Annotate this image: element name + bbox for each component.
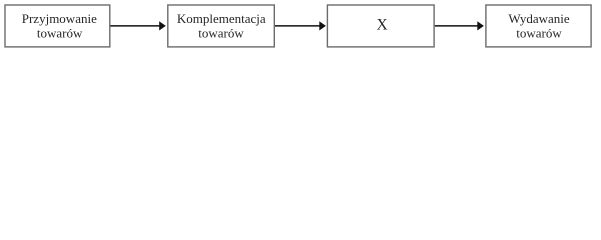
svg-text:towarów: towarów bbox=[37, 25, 83, 40]
block box: X bbox=[327, 5, 434, 47]
arrow 3: X -> Wydawanie bbox=[435, 21, 484, 30]
block box: Przyjmowanie towarow bbox=[5, 5, 110, 47]
svg-text:Wydawanie: Wydawanie bbox=[508, 11, 570, 26]
block box: Komplementacja towarow bbox=[168, 5, 274, 47]
svg-text:X: X bbox=[376, 16, 387, 33]
block box: Wydawanie towarow bbox=[486, 5, 591, 47]
svg-text:Komplementacja: Komplementacja bbox=[177, 11, 266, 26]
arrow 1: Przyjmowanie -> Komplementacja bbox=[111, 21, 166, 30]
svg-text:towarów: towarów bbox=[198, 25, 244, 40]
svg-text:Przyjmowanie: Przyjmowanie bbox=[22, 11, 97, 26]
svg-text:towarów: towarów bbox=[516, 25, 562, 40]
arrow 2: Komplementacja -> X bbox=[275, 21, 326, 30]
